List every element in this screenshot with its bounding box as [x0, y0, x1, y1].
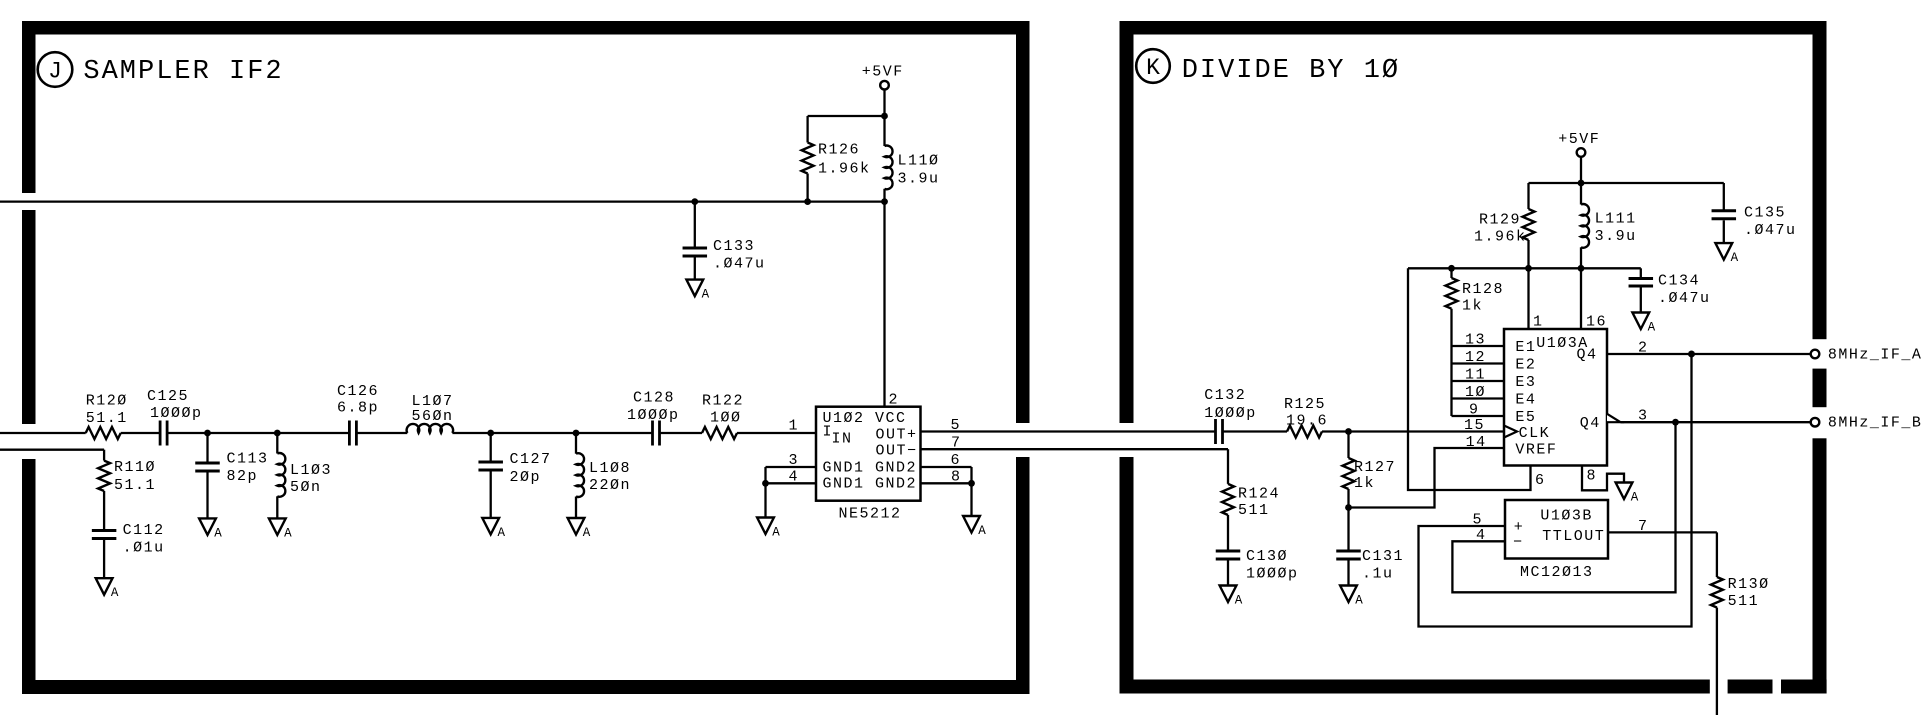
svg-text:E2: E2 [1515, 357, 1536, 374]
svg-text:A: A [702, 288, 710, 302]
svg-text:8: 8 [1587, 468, 1598, 485]
svg-text:U1Ø2 VCC: U1Ø2 VCC [823, 410, 907, 427]
svg-text:A: A [1631, 491, 1639, 505]
svg-text:3: 3 [1638, 408, 1649, 425]
svg-text:−: − [1513, 534, 1524, 551]
svg-text:C113: C113 [227, 451, 269, 468]
svg-text:12: 12 [1465, 349, 1486, 366]
svg-text:1Ø: 1Ø [1465, 384, 1486, 401]
svg-text:3.9u: 3.9u [898, 171, 940, 188]
svg-text:R128: R128 [1462, 281, 1504, 298]
svg-text:511: 511 [1238, 502, 1270, 519]
svg-text:IN: IN [832, 430, 853, 447]
svg-text:.Ø47u: .Ø47u [713, 256, 766, 273]
svg-text:A: A [1355, 594, 1363, 608]
svg-text:1k: 1k [1462, 298, 1483, 315]
svg-text:15: 15 [1464, 417, 1485, 434]
svg-text:R13Ø: R13Ø [1728, 576, 1770, 593]
svg-text:R129: R129 [1479, 212, 1521, 229]
svg-text:8MHz_IF_B: 8MHz_IF_B [1828, 415, 1923, 432]
svg-text:3: 3 [789, 452, 800, 469]
svg-text:19.6: 19.6 [1286, 413, 1328, 430]
svg-text:4: 4 [1476, 527, 1487, 544]
svg-text:5: 5 [1473, 512, 1484, 529]
svg-text:1ØØØp: 1ØØØp [627, 407, 680, 424]
svg-text:C132: C132 [1204, 387, 1246, 404]
svg-text:R125: R125 [1284, 396, 1326, 413]
svg-text:1k: 1k [1354, 475, 1375, 492]
svg-text:E1: E1 [1515, 339, 1536, 356]
svg-text:2Øp: 2Øp [510, 469, 542, 486]
svg-text:A: A [214, 526, 222, 540]
svg-text:Q4: Q4 [1577, 347, 1598, 364]
svg-text:.1u: .1u [1362, 566, 1394, 583]
svg-text:14: 14 [1466, 434, 1487, 451]
svg-text:C135: C135 [1744, 205, 1786, 222]
svg-text:MC12Ø13: MC12Ø13 [1520, 564, 1594, 581]
svg-text:E4: E4 [1515, 392, 1536, 409]
svg-text:L111: L111 [1595, 211, 1637, 228]
svg-text:CLK: CLK [1519, 425, 1551, 442]
svg-text:C128: C128 [633, 390, 675, 407]
svg-text:5Øn: 5Øn [290, 479, 322, 496]
svg-text:C126: C126 [337, 383, 379, 400]
svg-text:.Ø47u: .Ø47u [1658, 290, 1711, 307]
svg-text:J: J [48, 59, 62, 85]
svg-text:OUT+: OUT+ [876, 427, 918, 444]
svg-text:R124: R124 [1238, 486, 1280, 503]
svg-text:8MHz_IF_A: 8MHz_IF_A [1828, 347, 1923, 364]
svg-text:L11Ø: L11Ø [898, 153, 940, 170]
svg-text:NE5212: NE5212 [839, 506, 902, 523]
svg-text:C133: C133 [713, 238, 755, 255]
svg-text:R122: R122 [702, 393, 744, 410]
svg-text:C134: C134 [1658, 273, 1700, 290]
svg-text:GND1 GND2: GND1 GND2 [823, 460, 918, 477]
svg-text:R126: R126 [818, 142, 860, 159]
svg-text:K: K [1146, 55, 1160, 81]
svg-text:9: 9 [1469, 402, 1480, 419]
svg-text:E3: E3 [1515, 374, 1536, 391]
svg-text:Q4: Q4 [1580, 415, 1601, 432]
svg-text:4: 4 [789, 469, 800, 486]
svg-text:GND1 GND2: GND1 GND2 [823, 476, 918, 493]
svg-text:DIVIDE BY 1Ø: DIVIDE BY 1Ø [1182, 56, 1400, 86]
svg-text:E5: E5 [1515, 409, 1536, 426]
svg-text:8: 8 [951, 469, 962, 486]
svg-text:1ØØØp: 1ØØØp [1204, 405, 1257, 422]
svg-text:511: 511 [1728, 593, 1760, 610]
svg-text:+5VF: +5VF [862, 64, 904, 81]
svg-text:A: A [498, 526, 506, 540]
svg-text:A: A [1235, 594, 1243, 608]
svg-text:L1Ø8: L1Ø8 [589, 460, 631, 477]
svg-text:C112: C112 [123, 522, 165, 539]
svg-text:C125: C125 [147, 388, 189, 405]
svg-text:R12Ø: R12Ø [86, 393, 128, 410]
svg-text:51.1: 51.1 [114, 477, 156, 494]
svg-text:C131: C131 [1362, 548, 1404, 565]
svg-text:1.96k: 1.96k [1474, 229, 1527, 246]
svg-text:SAMPLER IF2: SAMPLER IF2 [83, 57, 283, 87]
svg-text:TTLOUT: TTLOUT [1542, 528, 1605, 545]
svg-text:11: 11 [1465, 367, 1486, 384]
svg-text:.Ø1u: .Ø1u [123, 540, 165, 557]
svg-text:1ØØØp: 1ØØØp [1246, 566, 1299, 583]
svg-text:A: A [1648, 321, 1656, 335]
svg-text:51.1: 51.1 [86, 410, 128, 427]
svg-text:C13Ø: C13Ø [1246, 548, 1288, 565]
svg-text:7: 7 [1638, 518, 1649, 535]
svg-text:L1Ø3: L1Ø3 [290, 462, 332, 479]
svg-text:C127: C127 [510, 451, 552, 468]
svg-text:U1Ø3B: U1Ø3B [1540, 508, 1593, 525]
svg-text:A: A [284, 526, 292, 540]
svg-text:A: A [1731, 251, 1739, 265]
svg-text:.Ø47u: .Ø47u [1744, 222, 1797, 239]
svg-text:1ØØØp: 1ØØØp [150, 405, 203, 422]
svg-text:VREF: VREF [1515, 442, 1557, 459]
svg-text:82p: 82p [227, 468, 259, 485]
svg-text:6.8p: 6.8p [337, 400, 379, 417]
svg-text:OUT−: OUT− [876, 443, 918, 460]
svg-text:A: A [978, 524, 986, 538]
svg-text:22Øn: 22Øn [589, 477, 631, 494]
svg-text:A: A [583, 526, 591, 540]
svg-text:56Øn: 56Øn [412, 408, 454, 425]
svg-text:R127: R127 [1354, 459, 1396, 476]
svg-text:1.96k: 1.96k [818, 161, 871, 178]
svg-text:R11Ø: R11Ø [114, 459, 156, 476]
svg-text:A: A [772, 526, 780, 540]
svg-text:A: A [111, 586, 119, 600]
svg-text:2: 2 [1638, 340, 1649, 357]
svg-text:6: 6 [951, 452, 962, 469]
svg-text:6: 6 [1535, 472, 1546, 489]
svg-text:1ØØ: 1ØØ [710, 410, 742, 427]
svg-text:3.9u: 3.9u [1595, 228, 1637, 245]
svg-text:+5VF: +5VF [1558, 131, 1600, 148]
svg-text:1: 1 [789, 418, 800, 435]
svg-text:13: 13 [1465, 332, 1486, 349]
